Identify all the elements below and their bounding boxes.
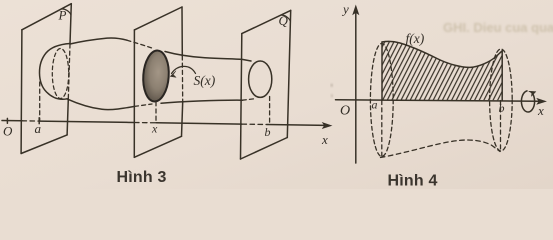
svg-text:a: a xyxy=(35,121,42,136)
svg-text:O: O xyxy=(3,124,13,139)
plane P: right edge solid lower xyxy=(67,99,68,135)
solid blob: top outline (solid, left of middle plane) xyxy=(70,38,127,44)
dashed mirror of left edge below axis xyxy=(381,101,383,157)
x-axis fig3: solid segment x to plane Q xyxy=(156,123,242,124)
svg-text:y: y xyxy=(341,2,349,17)
faint bleed smudge near y-axis base xyxy=(331,84,334,97)
dashed revolution ellipse at a xyxy=(370,44,393,157)
x-axis fig3: dashed segment behind plane Q xyxy=(242,123,267,125)
plane Q: top edge xyxy=(242,10,291,33)
middle plane: top edge xyxy=(134,7,182,30)
x-axis fig3: dashed segment behind middle plane xyxy=(135,122,157,124)
rotation symbol arrowhead xyxy=(529,91,536,96)
plane P: right edge solid upper xyxy=(70,4,71,44)
plane P angle arc xyxy=(62,9,71,15)
dashed revolution ellipse at b xyxy=(490,49,513,151)
dashed vertical from oval to b xyxy=(269,97,271,125)
dashed ellipse: cross-section of cap at plane P xyxy=(52,49,68,99)
x-axis fig3 arrowhead xyxy=(323,123,332,129)
middle plane: bottom edge xyxy=(134,136,181,157)
rotation arrow symbol around x-axis xyxy=(521,91,534,112)
solid blob: bottom outline dashed inside plane Q xyxy=(242,99,256,101)
solid blob: bottom outline left part xyxy=(67,99,135,110)
f(x) curve (top of region) xyxy=(382,41,502,67)
solid blob: left cap outline xyxy=(39,44,70,100)
plane P: right edge dashed behind solid xyxy=(68,44,70,99)
cross-section S(x): dark filled ellipse xyxy=(142,50,171,103)
y-axis fig4 xyxy=(355,10,357,163)
middle plane: left edge xyxy=(133,30,135,157)
x-axis fig3: solid segment a to middle plane xyxy=(39,121,135,122)
plane Q angle arc xyxy=(281,15,290,21)
x-axis fig3: solid segment b to arrow xyxy=(267,124,326,127)
x-axis fig4 xyxy=(336,100,541,101)
svg-text:b: b xyxy=(265,125,271,139)
dashed mirror curve of f(x) below axis xyxy=(381,140,501,158)
y-axis arrowhead xyxy=(353,6,359,15)
faint bleed-through text top right xyxy=(443,20,553,35)
x-axis fig3: dashed segment behind plane P xyxy=(22,120,39,122)
dashed vertical from S(x) to x on axis xyxy=(155,102,157,123)
solid blob: top outline dashed behind middle plane xyxy=(127,40,152,48)
plane Q: bottom edge xyxy=(241,138,288,160)
dashed mirror of right edge below axis xyxy=(500,101,502,152)
svg-text:x: x xyxy=(321,132,328,147)
left edge of region at a xyxy=(381,42,383,100)
plane P: top edge xyxy=(22,4,71,30)
plane P: left edge xyxy=(20,30,23,154)
solid blob: top outline from S(x) to plane Q xyxy=(165,52,251,62)
svg-text:Hình 4: Hình 4 xyxy=(388,173,438,190)
svg-text:b: b xyxy=(499,101,505,115)
plane P: bottom edge xyxy=(21,135,67,154)
tick at a xyxy=(38,118,40,124)
paper background xyxy=(0,0,553,189)
svg-text:Hình 3: Hình 3 xyxy=(117,169,167,186)
svg-text:O: O xyxy=(340,104,350,119)
svg-text:a: a xyxy=(372,98,378,112)
hatched area under f(x) xyxy=(382,41,502,100)
svg-text:P: P xyxy=(58,8,67,23)
svg-text:GHI. Dieu cua qua t: GHI. Dieu cua qua t xyxy=(443,20,553,35)
dashed vertical from blob tip to a xyxy=(39,82,41,121)
solid blob: bottom outline dashed behind middle plane xyxy=(135,104,153,106)
svg-text:x: x xyxy=(537,103,544,118)
svg-text:f(x): f(x) xyxy=(406,31,425,46)
svg-text:x: x xyxy=(151,122,158,136)
plane Q: left edge xyxy=(241,34,242,159)
x-axis fig3: solid segment O to plane P xyxy=(2,120,22,122)
middle plane: right edge solid upper xyxy=(181,7,183,56)
right cap oval in plane Q xyxy=(249,61,272,97)
arrow from S(x) label to ellipse xyxy=(172,66,196,73)
x-axis fig4 arrowhead xyxy=(537,98,546,104)
right edge of region at b xyxy=(501,51,503,101)
arrowhead of S(x) pointer xyxy=(170,71,176,77)
svg-text:Q: Q xyxy=(279,13,289,28)
svg-text:S(x): S(x) xyxy=(194,73,216,88)
solid blob: bottom outline from S(x) to plane Q xyxy=(161,100,242,103)
origin tick xyxy=(6,118,8,123)
middle plane: right edge solid lower xyxy=(182,102,183,136)
middle plane: right edge dashed behind solid xyxy=(181,56,183,102)
plane Q: right edge xyxy=(287,10,290,137)
